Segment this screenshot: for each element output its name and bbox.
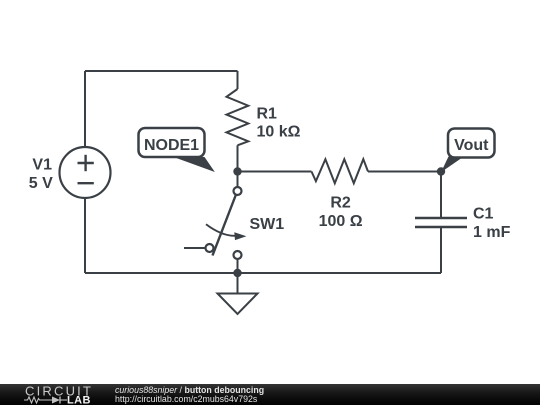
node NODE1 flag (139, 128, 215, 172)
footer bar (0, 384, 540, 405)
wire: Vout junction down to C1 (440, 172, 442, 219)
svg-text:100 Ω: 100 Ω (319, 213, 363, 230)
resistor R1 (227, 89, 301, 145)
svg-text:SW1: SW1 (250, 216, 285, 233)
wire: left vertical from top rail to V1 (84, 71, 86, 147)
svg-text:NODE1: NODE1 (144, 137, 199, 154)
svg-text:LAB: LAB (67, 395, 91, 405)
svg-text:5 V: 5 V (29, 175, 53, 192)
footer credit line (115, 386, 264, 395)
wire: C1 bottom to bottom rail (440, 227, 442, 273)
resistor R2 (312, 159, 369, 230)
wire: R1 top stub (237, 71, 239, 89)
junction dot NODE1 (233, 167, 241, 175)
svg-text:R2: R2 (330, 194, 351, 211)
svg-text:V1: V1 (32, 157, 52, 174)
wire: junction to switch top terminal (237, 172, 239, 188)
footer url line (115, 395, 257, 404)
wire: R1 bottom to NODE1 junction (237, 145, 239, 171)
svg-text:10 kΩ: 10 kΩ (257, 124, 301, 141)
wire: bottom rail (85, 272, 441, 274)
node Vout flag (441, 129, 495, 173)
capacitor C1 (415, 206, 511, 241)
junction dot ground (233, 269, 241, 277)
svg-text:R1: R1 (257, 105, 278, 122)
CircuitLab logo (0, 384, 100, 405)
svg-text:1 mF: 1 mF (473, 224, 511, 241)
svg-text:Vout: Vout (454, 137, 489, 154)
ground (218, 273, 258, 314)
wire: switch bottom terminal to bottom rail (237, 259, 239, 273)
switch SW1 (184, 187, 284, 259)
junction dot Vout (437, 167, 445, 175)
svg-text:C1: C1 (473, 206, 494, 223)
wire: top rail from V1 top to R1 top (85, 70, 238, 72)
wire: V1 bottom to bottom rail (84, 198, 86, 273)
wire: R2 to Vout junction (368, 171, 441, 173)
voltage source V1 (29, 147, 111, 198)
wire: node line NODE1 to R2 (238, 171, 312, 173)
